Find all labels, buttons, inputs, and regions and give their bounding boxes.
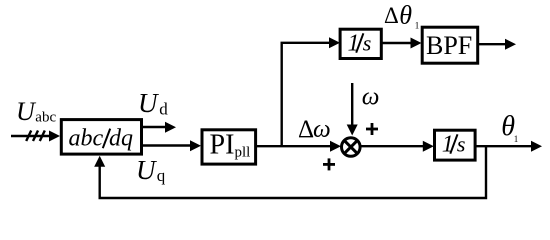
svg-text:pll: pll bbox=[235, 145, 251, 161]
svg-text:d: d bbox=[159, 100, 168, 119]
svg-text:1: 1 bbox=[348, 30, 360, 56]
svg-text:1: 1 bbox=[415, 21, 420, 31]
svg-text:Δ: Δ bbox=[298, 116, 314, 143]
svg-text:U: U bbox=[136, 155, 157, 185]
svg-text:θ: θ bbox=[399, 1, 412, 30]
svg-text:abc: abc bbox=[35, 109, 56, 125]
svg-text:1: 1 bbox=[442, 131, 454, 157]
svg-text:q: q bbox=[157, 166, 166, 185]
svg-text:dq: dq bbox=[109, 126, 133, 152]
svg-text:abc: abc bbox=[69, 126, 104, 152]
svg-text:1: 1 bbox=[514, 134, 519, 144]
svg-text:ω: ω bbox=[313, 116, 331, 143]
svg-text:U: U bbox=[16, 97, 37, 126]
svg-text:PI: PI bbox=[210, 129, 235, 160]
svg-text:U: U bbox=[138, 88, 159, 118]
svg-text:BPF: BPF bbox=[426, 31, 472, 60]
svg-text:ω: ω bbox=[362, 84, 380, 111]
svg-text:Δ: Δ bbox=[384, 3, 399, 28]
